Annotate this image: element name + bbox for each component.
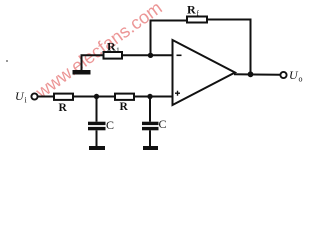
svg-text:U: U bbox=[289, 68, 299, 82]
node B junction bbox=[147, 94, 152, 99]
node Ui label bbox=[15, 89, 28, 105]
wire R to op-amp + bbox=[134, 96, 173, 98]
resistor R1 bbox=[104, 52, 123, 59]
wire input to R bbox=[38, 96, 55, 98]
label R1 bbox=[107, 40, 120, 55]
svg-text:1: 1 bbox=[116, 46, 120, 55]
node A junction bbox=[94, 94, 99, 99]
wire ground to R1 bbox=[82, 55, 104, 70]
ground (R1 branch) bbox=[73, 70, 91, 75]
svg-text:R: R bbox=[107, 40, 116, 54]
input terminal Ui bbox=[31, 93, 37, 99]
capacitor C1 bbox=[88, 97, 106, 147]
svg-text:o: o bbox=[299, 75, 303, 84]
op-amp U1 bbox=[173, 40, 236, 105]
op-amp + pin bbox=[175, 91, 180, 96]
resistor Rf bbox=[187, 17, 207, 23]
label Rf bbox=[187, 3, 200, 18]
node C junction (inverting input) bbox=[148, 53, 153, 58]
wire feedback up and across bbox=[151, 21, 188, 56]
svg-text:U: U bbox=[15, 89, 25, 103]
output terminal Uo bbox=[280, 72, 286, 78]
ground (C1) bbox=[89, 146, 105, 150]
capacitor C2 bbox=[142, 97, 159, 147]
wire R1 to node C bbox=[122, 54, 151, 56]
svg-text:R: R bbox=[187, 3, 196, 17]
wire node C to op-amp - input bbox=[151, 54, 173, 56]
svg-text:C: C bbox=[159, 117, 167, 131]
resistor R (second) bbox=[115, 94, 134, 100]
op-amp - pin bbox=[177, 54, 182, 56]
node D output junction bbox=[248, 71, 254, 77]
wire R to R bbox=[73, 96, 115, 98]
ground (C2) bbox=[143, 146, 158, 150]
resistor R (first) bbox=[54, 94, 73, 100]
svg-text:C: C bbox=[106, 118, 114, 132]
svg-text:R: R bbox=[120, 101, 129, 113]
node Uo label bbox=[289, 68, 303, 84]
speckle bbox=[6, 60, 8, 62]
wire op-amp output bbox=[234, 73, 281, 76]
wire Rf to output node bbox=[207, 20, 251, 75]
svg-text:R: R bbox=[59, 102, 68, 114]
